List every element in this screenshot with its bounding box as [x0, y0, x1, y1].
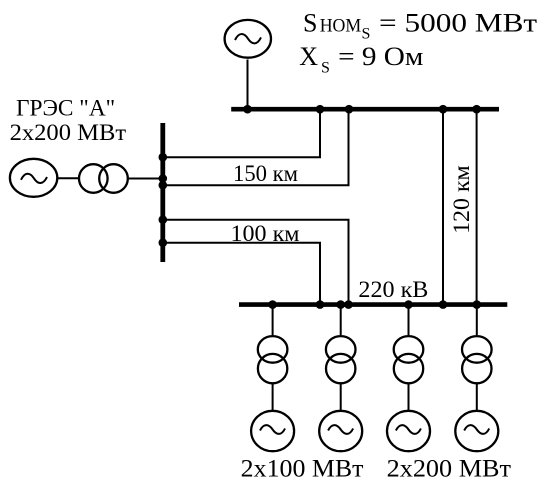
svg-text:2x200 МВт: 2x200 МВт [387, 455, 511, 480]
top bus (220 kV bus 1) [231, 107, 499, 112]
branch 1: transformer [258, 336, 288, 383]
bottom bus (220 kV bus 2) [239, 302, 507, 307]
wire: 150 km line circuit 1 [163, 109, 320, 157]
branch 1: generator [251, 411, 294, 451]
svg-text:НОМ: НОМ [320, 16, 362, 37]
wire: 120 km line circuit b [476, 109, 478, 304]
node: 120km line a on top bus [439, 105, 448, 114]
node: transformer wire on left busbar [159, 174, 168, 183]
branch 2: wire transformer to generator [340, 384, 342, 411]
wire: 150 km line circuit 2 [163, 109, 349, 185]
svg-text:ГРЭС "А": ГРЭС "А" [16, 95, 115, 121]
node: line3 on left busbar [159, 215, 168, 224]
svg-text:S: S [362, 25, 371, 42]
node: branch2 on bottom bus [336, 300, 345, 309]
svg-text:S: S [321, 59, 330, 76]
wire: 100 km line circuit 1 [163, 220, 349, 305]
branch 4: generator [455, 411, 498, 451]
node: line1 on left busbar [159, 153, 168, 162]
node: line2 on left busbar [159, 181, 168, 190]
svg-text:X: X [299, 42, 318, 71]
branch 3: transformer [394, 336, 424, 383]
svg-text:150 км: 150 км [233, 161, 298, 186]
branch 3: wire transformer to generator [408, 384, 410, 411]
node: generator on top bus [243, 105, 252, 114]
wire: 120 km line circuit a [442, 109, 444, 304]
branch 1: wire bus to transformer [272, 305, 274, 335]
branch 1: wire transformer to generator [272, 384, 274, 411]
branch 4: wire transformer to generator [476, 384, 478, 411]
svg-text:120 км: 120 км [449, 165, 475, 234]
node: branch3 on bottom bus [404, 300, 413, 309]
svg-text:2x100 МВт: 2x100 МВт [241, 456, 364, 480]
branch 3: wire bus to transformer [408, 305, 410, 335]
branch 4: wire bus to transformer [476, 305, 478, 335]
generator GS (system source, top) [225, 20, 271, 58]
left busbar (vertical) [160, 123, 165, 262]
svg-text:220 кВ: 220 кВ [358, 277, 428, 302]
node: line2 on top bus [345, 105, 354, 114]
wire: generator G-A to transformer T-A [57, 177, 79, 179]
branch 2: generator [319, 411, 362, 451]
wire: 100 km line circuit 2 [163, 243, 320, 305]
branch 2: transformer [326, 336, 356, 383]
svg-text:100 км: 100 км [231, 221, 300, 246]
svg-text:= 9 Ом: = 9 Ом [338, 42, 423, 71]
svg-text:= 5000 МВт: = 5000 МВт [379, 9, 537, 38]
svg-text:2x200 МВт: 2x200 МВт [10, 120, 127, 146]
transformer T-A (two overlapping circles) [79, 164, 128, 193]
label Sном_s = 5000 МВт [303, 9, 537, 43]
node: 120km line a on bottom bus [439, 300, 448, 309]
branch 2: wire bus to transformer [340, 305, 342, 335]
label X_s = 9 Ом [299, 42, 423, 77]
generator G-A (ГРЭС А) [10, 159, 57, 197]
node: branch4 / 120km line b on bottom bus [473, 300, 482, 309]
node: line4 on left busbar [159, 238, 168, 247]
node: branch1 on bottom bus [268, 300, 277, 309]
node: line1 on top bus [316, 105, 325, 114]
svg-text:S: S [303, 9, 317, 38]
node: 120km line b on top bus [472, 105, 481, 114]
wire: top generator to top bus [247, 60, 249, 110]
branch 4: transformer [462, 336, 492, 383]
node: 100km line circuit2 on bottom bus [316, 300, 325, 309]
wire: transformer T-A to left busbar [128, 178, 163, 180]
branch 3: generator [387, 411, 430, 451]
node: 100km line circuit1 on bottom bus [344, 300, 353, 309]
